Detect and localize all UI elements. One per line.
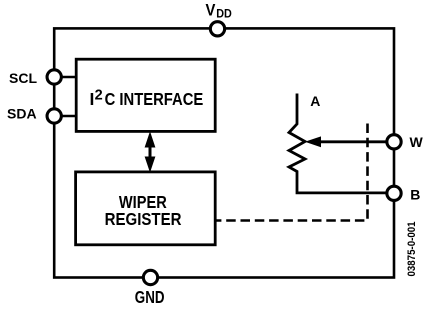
svg-text:V: V [206, 1, 216, 20]
svg-text:REGISTER: REGISTER [105, 209, 182, 229]
svg-text:SDA: SDA [7, 106, 37, 122]
svg-text:2: 2 [95, 88, 103, 104]
svg-text:C INTERFACE: C INTERFACE [105, 89, 204, 109]
svg-text:B: B [410, 187, 420, 203]
svg-text:GND: GND [135, 287, 165, 307]
svg-text:03875-0-001: 03875-0-001 [406, 222, 418, 277]
svg-text:A: A [310, 93, 320, 109]
svg-text:DD: DD [216, 8, 232, 20]
svg-text:SCL: SCL [9, 70, 37, 86]
svg-text:W: W [410, 134, 424, 150]
